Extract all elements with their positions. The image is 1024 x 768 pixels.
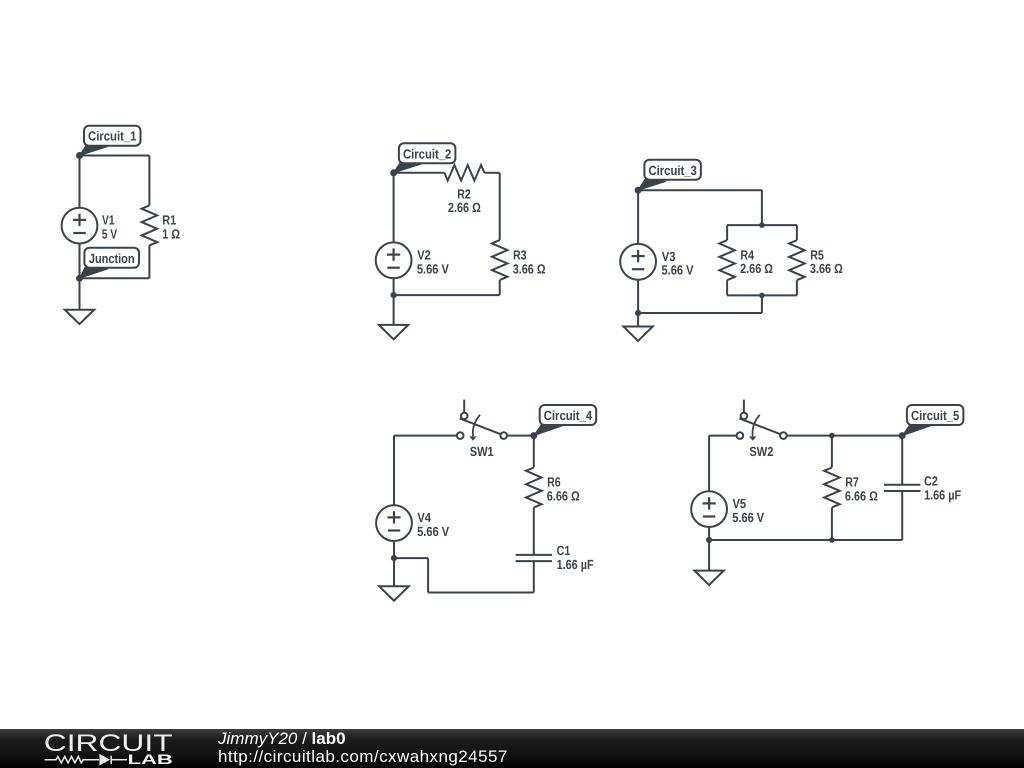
svg-text:SW1: SW1 <box>470 444 494 459</box>
svg-text:R5: R5 <box>810 247 824 262</box>
svg-text:V2: V2 <box>417 247 431 262</box>
svg-text:R1: R1 <box>162 213 176 228</box>
svg-text:Junction: Junction <box>89 251 135 266</box>
svg-text:2.66 Ω: 2.66 Ω <box>740 261 773 276</box>
svg-text:R6: R6 <box>547 475 561 490</box>
svg-text:6.66 Ω: 6.66 Ω <box>845 489 878 504</box>
svg-text:5 V: 5 V <box>102 227 118 242</box>
svg-text:V1: V1 <box>102 213 115 228</box>
svg-text:5.66 V: 5.66 V <box>417 524 449 539</box>
svg-text:5.66 V: 5.66 V <box>662 263 694 278</box>
svg-text:V3: V3 <box>662 249 676 264</box>
svg-text:V4: V4 <box>417 510 431 525</box>
svg-text:2.66 Ω: 2.66 Ω <box>448 200 481 215</box>
svg-text:LAB: LAB <box>128 751 173 767</box>
svg-text:Circuit_1: Circuit_1 <box>88 129 136 144</box>
svg-text:Circuit_4: Circuit_4 <box>544 408 593 423</box>
svg-text:Circuit_2: Circuit_2 <box>403 146 451 161</box>
svg-text:SW2: SW2 <box>749 444 773 459</box>
svg-text:Circuit_3: Circuit_3 <box>648 163 696 178</box>
svg-text:5.66 V: 5.66 V <box>732 510 764 525</box>
svg-text:C2: C2 <box>924 474 938 489</box>
svg-text:6.66 Ω: 6.66 Ω <box>547 489 580 504</box>
svg-text:1.66 µF: 1.66 µF <box>924 487 961 502</box>
svg-text:1 Ω: 1 Ω <box>162 226 180 241</box>
svg-text:3.66 Ω: 3.66 Ω <box>513 261 546 276</box>
svg-text:C1: C1 <box>557 543 571 558</box>
svg-text:R7: R7 <box>845 475 859 490</box>
svg-text:3.66 Ω: 3.66 Ω <box>810 261 843 276</box>
svg-text:V5: V5 <box>733 496 747 511</box>
svg-text:R3: R3 <box>513 247 527 262</box>
svg-text:5.66 V: 5.66 V <box>417 261 449 276</box>
svg-text:Circuit_5: Circuit_5 <box>911 408 959 423</box>
svg-text:R4: R4 <box>740 247 754 262</box>
svg-text:1.66 µF: 1.66 µF <box>557 557 594 572</box>
